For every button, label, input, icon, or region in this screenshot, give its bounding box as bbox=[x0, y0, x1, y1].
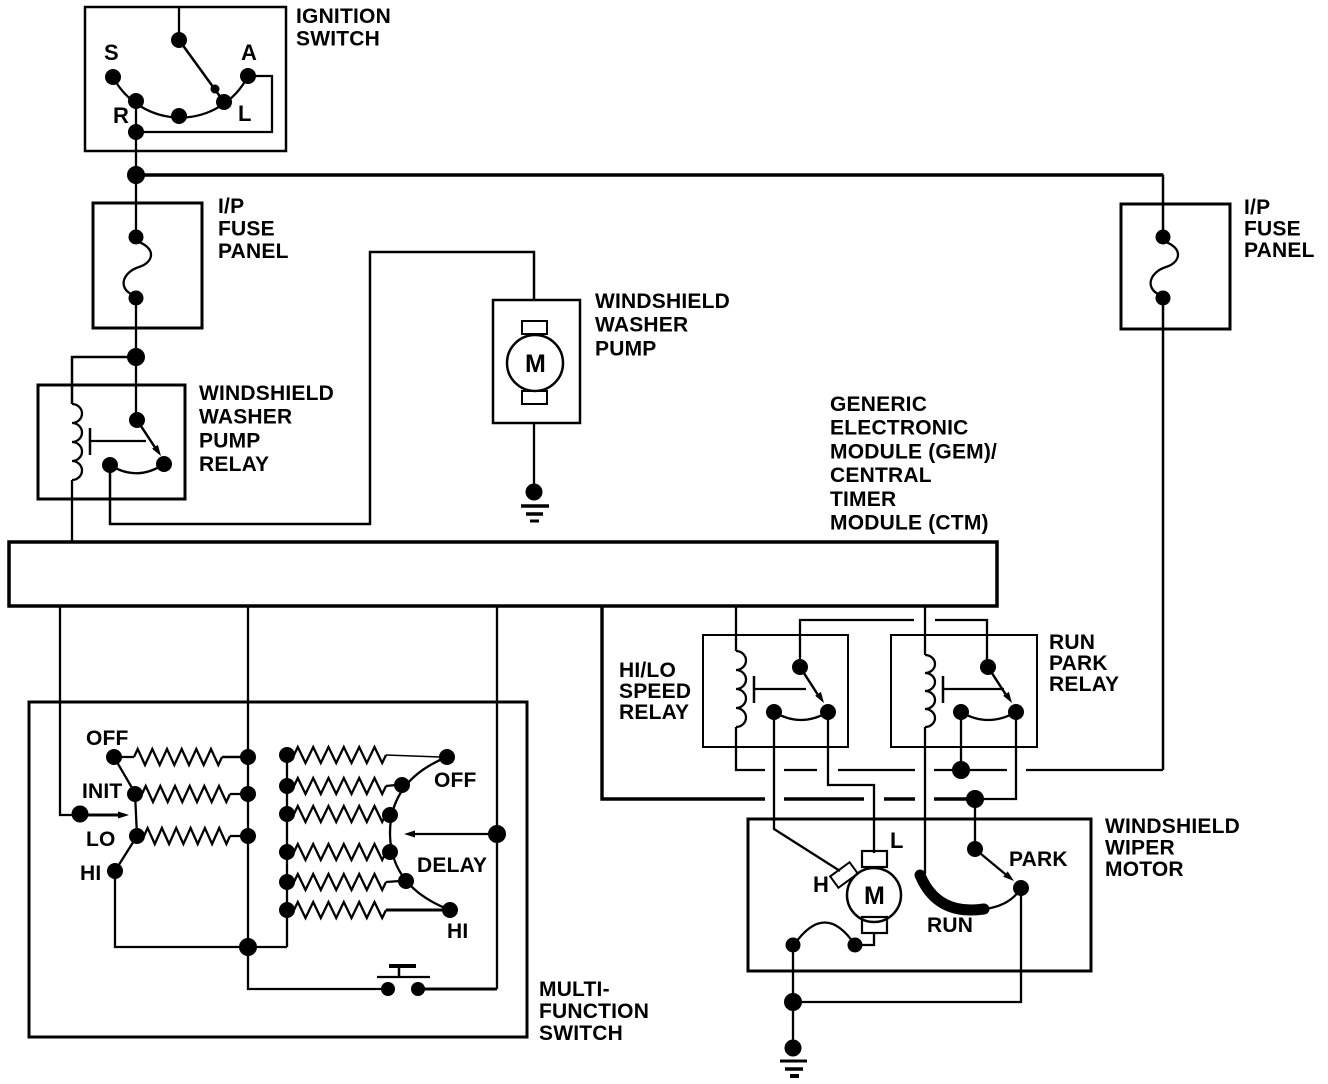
wire: HI leg to common bbox=[115, 871, 248, 947]
svg-text:DELAY: DELAY bbox=[417, 854, 487, 877]
wiper motor label bbox=[1105, 815, 1240, 881]
wire: left fuse output bbox=[135, 298, 137, 357]
contact delay 5 bbox=[398, 873, 414, 889]
label OFF (left) bbox=[86, 727, 129, 750]
run park relay box bbox=[891, 635, 1037, 747]
fuse element (left panel) bbox=[124, 230, 151, 306]
washer relay switch arm (arrow) bbox=[137, 420, 161, 456]
wire: park contact to ground junction bbox=[793, 888, 1021, 1002]
terminal A bbox=[240, 68, 256, 84]
wiper input arrow bbox=[80, 812, 129, 819]
hi/lo relay coil bbox=[736, 651, 746, 727]
svg-text:I/P: I/P bbox=[1244, 196, 1270, 219]
label RUN bbox=[927, 914, 973, 937]
node: R2 right bbox=[240, 786, 256, 802]
svg-text:GENERIC: GENERIC bbox=[830, 393, 927, 416]
svg-text:OFF: OFF bbox=[86, 727, 129, 750]
svg-text:IGNITION: IGNITION bbox=[296, 5, 391, 28]
terminal L bbox=[216, 94, 232, 110]
contact: arc bottom bbox=[171, 108, 187, 124]
hi/lo switch arm (arrow) bbox=[800, 667, 824, 703]
wire: motor to ground junction bbox=[792, 945, 794, 1002]
node: ignition output junction bbox=[127, 166, 145, 184]
label HI (delay) bbox=[447, 920, 468, 943]
wire: node to left fuse bbox=[135, 175, 137, 237]
label L bbox=[890, 828, 904, 853]
windshield wiper motor box bbox=[748, 819, 1091, 971]
node: fuse line junction bbox=[952, 761, 970, 779]
washer relay contact NO bbox=[156, 456, 172, 472]
hi/lo contact right bbox=[820, 704, 836, 720]
resistor R3 (lo row) bbox=[137, 828, 248, 844]
push-button switch SW1 bbox=[377, 965, 430, 996]
right I/P fuse panel box bbox=[1121, 204, 1230, 329]
node: park wire dot bbox=[967, 841, 983, 857]
svg-text:RUN: RUN bbox=[1049, 631, 1095, 654]
svg-text:WINDSHIELD: WINDSHIELD bbox=[1105, 815, 1240, 838]
wire: hi/lo left contact to motor H bbox=[774, 712, 840, 871]
hi/lo relay armature bbox=[754, 676, 806, 703]
svg-text:RUN: RUN bbox=[927, 914, 973, 937]
contact LO bbox=[129, 828, 145, 844]
node: park junction bbox=[966, 790, 984, 808]
svg-text:A: A bbox=[241, 40, 257, 65]
svg-text:M: M bbox=[864, 882, 885, 910]
wire: common junction to delay bank bbox=[248, 946, 287, 948]
ignition switch label bbox=[296, 5, 391, 51]
wire: motor bottom to loop bbox=[855, 933, 874, 945]
resistor R6 bbox=[294, 806, 386, 822]
run park contact left bbox=[953, 704, 969, 720]
wire: run arc to park contact bbox=[984, 888, 1021, 909]
right fuse panel label bbox=[1244, 196, 1315, 262]
wire: GEM to park node (thick, hopped) bbox=[602, 606, 975, 799]
contact HI (delay) bbox=[442, 902, 458, 918]
contact OFF (delay) bbox=[439, 749, 455, 765]
svg-text:R: R bbox=[113, 103, 129, 128]
left selector contact arc bbox=[114, 757, 137, 871]
washer relay switch common bbox=[129, 412, 145, 428]
terminal R bbox=[128, 93, 144, 109]
contact delay 2 bbox=[394, 777, 410, 793]
node: delay R6 left bbox=[279, 902, 295, 918]
wiper motor M2 bbox=[847, 851, 901, 933]
contact delay 4 bbox=[382, 844, 398, 860]
contact delay 3 bbox=[382, 807, 398, 823]
wire: hi/lo right contact to motor L bbox=[828, 712, 874, 853]
wire: park node into motor bbox=[974, 799, 976, 849]
hi/lo contact left bbox=[766, 704, 782, 720]
node: R link junction bbox=[128, 124, 144, 140]
washer relay contact bridge arc bbox=[110, 464, 164, 473]
svg-text:WIPER: WIPER bbox=[1105, 837, 1175, 860]
label S bbox=[104, 40, 119, 65]
node: ignition rotor pivot bbox=[171, 32, 187, 48]
ignition switch box bbox=[85, 7, 286, 151]
node: delay R1 left bbox=[279, 747, 295, 763]
resistor R4 (delay off row) bbox=[294, 747, 440, 763]
svg-text:PUMP: PUMP bbox=[199, 429, 260, 452]
svg-text:MODULE (CTM): MODULE (CTM) bbox=[830, 512, 989, 535]
svg-text:FUNCTION: FUNCTION bbox=[539, 1000, 649, 1023]
run park switch common bbox=[980, 659, 996, 675]
wire: GEM to wiper-arm input (arrow) bbox=[60, 606, 72, 815]
label H bbox=[813, 872, 829, 897]
park selector arm (arrow) bbox=[975, 849, 1014, 881]
ground (washer pump) bbox=[521, 484, 549, 522]
resistor R2 (init row) bbox=[135, 786, 248, 802]
wire: hi/lo coil to fuse feed line bbox=[736, 727, 765, 770]
contact HI (left) bbox=[107, 863, 123, 879]
terminal H (rotated) bbox=[830, 862, 858, 887]
node: delay R4 left bbox=[279, 844, 295, 860]
svg-text:M: M bbox=[525, 350, 546, 378]
svg-text:WASHER: WASHER bbox=[199, 406, 292, 429]
svg-text:MODULE (GEM)/: MODULE (GEM)/ bbox=[830, 440, 997, 463]
fuse element (right panel) bbox=[1151, 230, 1178, 306]
svg-text:CENTRAL: CENTRAL bbox=[830, 464, 932, 487]
label A bbox=[241, 40, 257, 65]
svg-text:RELAY: RELAY bbox=[619, 701, 689, 724]
windshield washer pump box bbox=[493, 300, 580, 423]
label HI (left) bbox=[80, 862, 101, 885]
wire: GEM to delay wiper (arrow) bbox=[496, 606, 498, 989]
svg-text:MULTI-: MULTI- bbox=[539, 978, 610, 1001]
node: washer relay feed junction bbox=[127, 348, 145, 366]
node: loop right bbox=[848, 938, 863, 953]
svg-text:WINDSHIELD: WINDSHIELD bbox=[595, 290, 730, 313]
left I/P fuse panel box bbox=[93, 203, 202, 328]
node: wiper input bbox=[72, 806, 89, 823]
run park switch arm (arrow) bbox=[988, 667, 1012, 703]
wire: GEM through run/park coil to motor RUN bbox=[925, 606, 935, 874]
node: delay R2 left bbox=[279, 778, 295, 794]
wire: GEM to hi/lo coil bbox=[735, 606, 737, 651]
resistor R5 bbox=[294, 778, 396, 794]
node: R3 right bbox=[240, 828, 256, 844]
contact OFF (left) bbox=[106, 749, 122, 765]
delay bank left column bbox=[286, 755, 288, 947]
wire: A to R link bbox=[136, 76, 272, 132]
svg-text:FUSE: FUSE bbox=[218, 218, 275, 241]
svg-text:INIT: INIT bbox=[82, 780, 122, 803]
GEM/CTM module box bbox=[9, 542, 997, 606]
wire: washer pump to ground bbox=[533, 423, 535, 484]
label OFF (delay) bbox=[434, 769, 477, 792]
resistor R8 bbox=[294, 874, 400, 890]
run park relay armature bbox=[943, 676, 1004, 703]
label L bbox=[238, 101, 252, 126]
svg-text:WINDSHIELD: WINDSHIELD bbox=[199, 382, 334, 405]
svg-text:RELAY: RELAY bbox=[1049, 673, 1119, 696]
svg-text:FUSE: FUSE bbox=[1244, 218, 1301, 241]
svg-text:H: H bbox=[813, 872, 829, 897]
wire: fuse feed line (hopped) bbox=[784, 769, 1163, 771]
svg-text:L: L bbox=[238, 101, 252, 126]
svg-text:HI/LO: HI/LO bbox=[619, 659, 676, 682]
RUN contact arc (thick) bbox=[920, 875, 984, 910]
GEM/CTM label bbox=[830, 393, 997, 535]
svg-text:ELECTRONIC: ELECTRONIC bbox=[830, 417, 969, 440]
svg-text:LO: LO bbox=[86, 828, 116, 851]
wire: top bus down to right fuse bbox=[1162, 175, 1165, 237]
label INIT bbox=[82, 780, 122, 803]
node: switch common junction bbox=[239, 938, 257, 956]
contact INIT bbox=[127, 786, 143, 802]
svg-text:PUMP: PUMP bbox=[595, 337, 656, 360]
relay top bridge wire (hopped) bbox=[800, 620, 987, 667]
svg-text:PANEL: PANEL bbox=[218, 240, 289, 263]
svg-text:S: S bbox=[104, 40, 119, 65]
terminal S bbox=[105, 69, 121, 85]
run park contact bridge arc bbox=[961, 712, 1016, 720]
wire: ignition feed stub bbox=[178, 7, 180, 40]
label LO bbox=[86, 828, 116, 851]
hi/lo speed relay box bbox=[703, 635, 848, 747]
label DELAY bbox=[417, 854, 487, 877]
svg-text:PARK: PARK bbox=[1049, 652, 1108, 675]
wire: run park right contact to park node bbox=[975, 712, 1016, 799]
delay wiper arrow bbox=[404, 831, 497, 838]
wire: relay output to washer pump bbox=[110, 252, 534, 524]
wire: R down to bus node bbox=[135, 101, 137, 175]
node: delay R5 left bbox=[279, 874, 295, 890]
washer relay armature bbox=[90, 428, 146, 455]
node: ground junction bbox=[784, 993, 802, 1011]
washer relay coil bbox=[72, 404, 82, 480]
wire: washer relay coil to GEM bbox=[71, 480, 73, 543]
wire: GEM to resistor column bbox=[247, 606, 249, 947]
node: delay wiper input bbox=[488, 825, 506, 843]
contact PARK bbox=[1013, 880, 1029, 896]
node: loop left bbox=[786, 938, 801, 953]
label R bbox=[113, 103, 129, 128]
run park relay label bbox=[1049, 631, 1119, 696]
label PARK bbox=[1009, 848, 1068, 871]
washer pump relay label bbox=[199, 382, 334, 476]
resistor R7 bbox=[294, 844, 386, 860]
motor brush loop arc bbox=[794, 923, 855, 946]
run park contact right bbox=[1008, 704, 1024, 720]
hi/lo switch common bbox=[792, 659, 808, 675]
wire: delay wiper line to push-button bbox=[418, 988, 497, 991]
multi-function switch box bbox=[29, 702, 527, 1037]
wire: junction to relay switch common bbox=[135, 357, 137, 420]
svg-text:PARK: PARK bbox=[1009, 848, 1068, 871]
svg-text:HI: HI bbox=[447, 920, 468, 943]
ground (wiper motor) bbox=[780, 1040, 807, 1077]
ignition contact arc bbox=[113, 76, 248, 118]
svg-text:I/P: I/P bbox=[218, 195, 244, 218]
wire: junction to relay coil top bbox=[72, 357, 136, 404]
hi/lo speed relay label bbox=[619, 659, 691, 724]
ignition rotor arm to L bbox=[179, 40, 224, 102]
resistor R9 (delay hi row) bbox=[294, 902, 443, 918]
svg-text:PANEL: PANEL bbox=[1244, 239, 1315, 262]
wire: run park left contact to fuse line bbox=[960, 712, 962, 770]
svg-text:L: L bbox=[890, 828, 904, 853]
delay selector contact arc bbox=[390, 757, 450, 910]
node: delay R3 left bbox=[279, 806, 295, 822]
resistor R1 (off row) bbox=[114, 749, 248, 765]
washer relay contact NC bbox=[102, 457, 118, 473]
multi-function switch label bbox=[539, 978, 649, 1045]
left fuse panel label bbox=[218, 195, 289, 263]
svg-text:MOTOR: MOTOR bbox=[1105, 858, 1184, 881]
svg-text:SPEED: SPEED bbox=[619, 680, 691, 703]
hi/lo contact bridge arc bbox=[774, 712, 828, 720]
wire: right fuse output down bbox=[1162, 298, 1165, 770]
wire: junction to ground bbox=[792, 1002, 794, 1040]
svg-text:RELAY: RELAY bbox=[199, 453, 269, 476]
svg-text:OFF: OFF bbox=[434, 769, 477, 792]
washer pump label bbox=[595, 290, 730, 360]
washer pump motor M1 bbox=[507, 321, 563, 404]
svg-text:WASHER: WASHER bbox=[595, 314, 688, 337]
svg-text:HI: HI bbox=[80, 862, 101, 885]
svg-text:TIMER: TIMER bbox=[830, 488, 896, 511]
wire: common junction to push-button bbox=[248, 947, 388, 989]
svg-text:SWITCH: SWITCH bbox=[296, 28, 380, 51]
node: R1 right bbox=[240, 749, 256, 765]
svg-text:SWITCH: SWITCH bbox=[539, 1022, 623, 1045]
wire: top bus to right fuse panel bbox=[136, 173, 1164, 177]
washer pump relay box bbox=[38, 385, 185, 499]
